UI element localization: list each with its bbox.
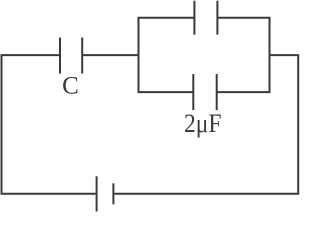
wire left loop: from capacitor C left plate, left, down, to battery long plate [2, 55, 96, 194]
svg-text:2μF: 2μF [184, 109, 222, 138]
wire from capacitor C to parallel box [82, 54, 138, 56]
capacitor top branch [194, 1, 217, 35]
wire parallel box left half: top edge, left edge, bottom edge [139, 18, 195, 92]
wire right loop: from box right edge, right, down, to battery short plate [114, 55, 298, 194]
wire parallel box right half: top edge, right edge, bottom edge [217, 18, 270, 92]
svg-text:C: C [62, 73, 79, 100]
battery short plate [112, 183, 114, 204]
capacitor 2uF bottom branch [193, 74, 216, 110]
capacitor C [60, 38, 82, 74]
battery long plate [96, 176, 98, 211]
